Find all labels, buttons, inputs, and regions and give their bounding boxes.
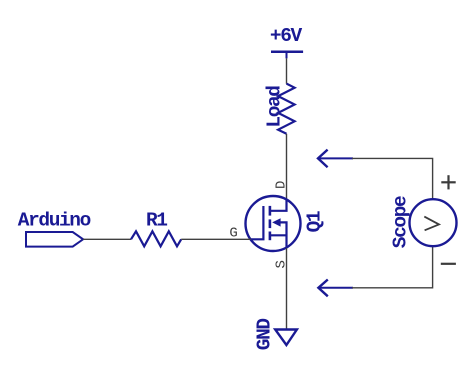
resistor Load xyxy=(278,84,295,134)
svg-text:Arduino: Arduino xyxy=(18,210,91,232)
wire probe bottom to scope xyxy=(352,246,433,288)
power flag +6V bar xyxy=(271,51,303,54)
voltmeter Scope circle xyxy=(410,199,457,246)
scope probe arrow bottom xyxy=(318,280,353,297)
voltmeter V glyph xyxy=(424,217,439,231)
svg-text:Scope: Scope xyxy=(390,196,412,248)
transistor Q1 circle xyxy=(246,196,301,251)
resistor R1 xyxy=(131,231,181,246)
ground symbol xyxy=(275,330,297,346)
svg-text:Load: Load xyxy=(263,86,285,128)
power flag +6V tick xyxy=(286,52,288,59)
transistor Q1 source stub xyxy=(270,222,287,248)
wire probe top to scope xyxy=(352,158,433,199)
wire source to ground xyxy=(286,248,288,329)
wire +6V to Load xyxy=(286,58,288,83)
transistor Q1 body arrow xyxy=(272,218,280,226)
plus terminal mark xyxy=(441,175,455,189)
terminal Arduino connector xyxy=(26,232,83,247)
transistor Q1 channel bar middle xyxy=(269,219,272,228)
transistor Q1 channel bar top xyxy=(269,206,272,216)
wire Load to drain xyxy=(286,134,288,200)
wire Arduino to R1 xyxy=(83,238,131,240)
svg-text:+6V: +6V xyxy=(270,25,303,47)
svg-text:Q1: Q1 xyxy=(303,211,325,232)
transistor Q1 drain stub xyxy=(270,200,287,211)
svg-text:R1: R1 xyxy=(146,210,167,232)
scope probe arrow top xyxy=(318,150,353,168)
minus terminal mark xyxy=(441,263,456,265)
wire R1 to gate xyxy=(181,238,251,240)
transistor Q1 channel bar bottom xyxy=(269,232,272,241)
svg-text:D: D xyxy=(273,181,289,189)
svg-text:GND: GND xyxy=(254,319,276,351)
transistor Q1 gate lead xyxy=(251,206,264,239)
